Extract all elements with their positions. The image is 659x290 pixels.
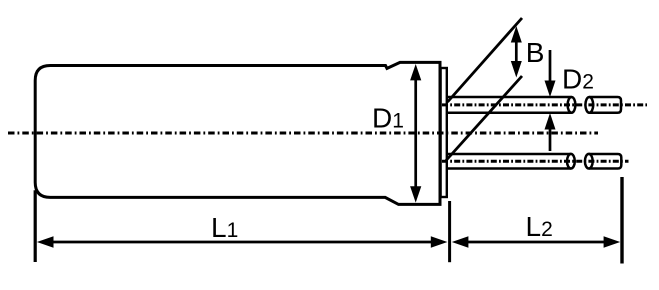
top lead centerline bbox=[442, 103, 647, 106]
dimension D1 double arrow bbox=[414, 78, 417, 188]
extension line middle bbox=[448, 201, 451, 262]
taping diagonal line upper bbox=[448, 18, 523, 102]
svg-text:D2: D2 bbox=[562, 63, 594, 94]
svg-text:L2: L2 bbox=[526, 211, 553, 242]
dimension D2 upper arrow bbox=[549, 50, 552, 82]
bottom lead bbox=[448, 154, 571, 169]
end cap disk bbox=[441, 68, 447, 197]
dimension B double arrow bbox=[515, 40, 518, 64]
top lead bbox=[448, 97, 572, 113]
extension line right bbox=[620, 177, 623, 264]
dimension D2 lower arrow bbox=[549, 128, 552, 151]
svg-text:D1: D1 bbox=[372, 103, 404, 134]
svg-text:L1: L1 bbox=[211, 212, 238, 243]
main axis centerline bbox=[8, 132, 598, 135]
top lead break segment bbox=[585, 97, 593, 113]
svg-text:B: B bbox=[526, 37, 545, 68]
capacitor body outline with crimp bbox=[35, 62, 440, 204]
dimension L2 line bbox=[467, 241, 605, 244]
taping diagonal line lower bbox=[446, 76, 522, 161]
dimension L1 line bbox=[52, 241, 432, 244]
extension line left bbox=[34, 190, 37, 262]
bottom lead break segment bbox=[585, 154, 593, 169]
bottom lead centerline bbox=[442, 160, 629, 163]
